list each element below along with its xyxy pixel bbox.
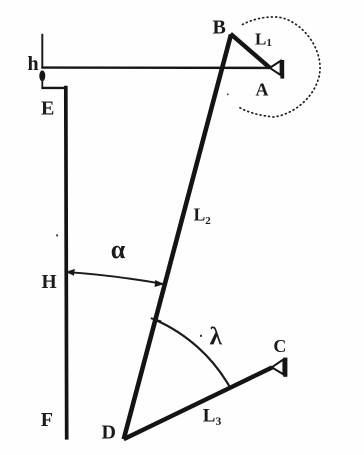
dotted crank circle around A [239,17,320,117]
pivot triangle C [272,359,284,374]
svg-text:F: F [41,409,53,431]
horizontal slider line h-A [41,66,270,69]
arrow blob below h line [39,70,45,81]
vertical guide line E-H-F [64,86,69,440]
svg-text:H: H [42,272,57,293]
speck left of lambda [200,335,202,337]
svg-text:E: E [41,97,54,119]
pivot bar C [283,358,287,377]
short connector below blob [41,78,43,88]
alpha arrowhead right [155,280,165,287]
link L1 (B to A) [231,34,270,68]
svg-text:A: A [256,80,269,100]
angle lambda arc [156,320,229,386]
link L2 (B to D) [124,35,231,440]
svg-text:L3: L3 [203,406,222,428]
svg-text:C: C [273,336,286,356]
svg-text:α: α [111,235,126,264]
svg-text:L1: L1 [255,30,272,50]
angle alpha arc [67,272,163,284]
svg-text:h: h [28,53,39,75]
alpha arrowhead left [66,269,75,276]
frame leader line at h [41,34,43,68]
svg-text:λ: λ [210,323,223,350]
svg-text:D: D [102,421,116,443]
pivot bar A [280,60,284,79]
link L3 (D to C) [124,367,273,439]
pivot triangle A [270,61,281,75]
small lambda arc tail tick [151,318,162,321]
speck near H [56,234,58,236]
svg-text:B: B [213,17,226,39]
step jog to vertical guide [41,87,66,89]
svg-text:L2: L2 [194,205,212,228]
speck near circle lower-left [227,94,229,96]
